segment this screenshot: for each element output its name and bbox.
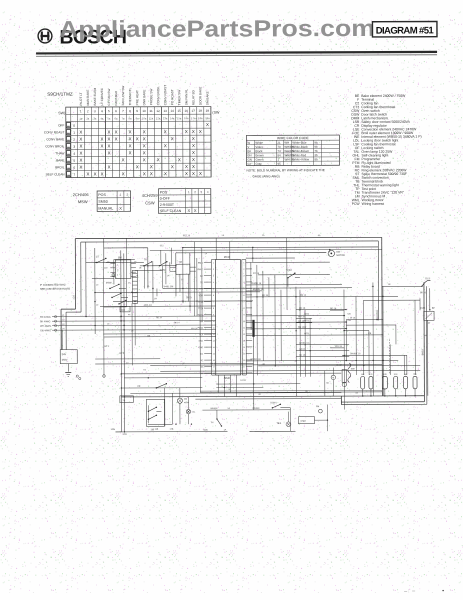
svg-text:X: X bbox=[107, 129, 110, 134]
svg-text:12: 12 bbox=[213, 334, 215, 336]
SW labels bbox=[58, 111, 220, 116]
svg-text:GAGE (AWG AWG): GAGE (AWG AWG) bbox=[253, 174, 280, 178]
svg-text:X: X bbox=[143, 129, 146, 134]
heating element row bbox=[361, 374, 418, 397]
svg-text:GN 1B: GN 1B bbox=[299, 349, 306, 351]
svg-text:17B: 17B bbox=[169, 429, 173, 431]
svg-text:SW): SW) bbox=[58, 111, 65, 115]
switch F004 bbox=[287, 270, 300, 287]
svg-text:4: 4 bbox=[243, 282, 244, 284]
svg-text:BK 14: BK 14 bbox=[174, 322, 180, 324]
svg-text:MOV: MOV bbox=[62, 359, 68, 362]
svg-text:2: 2 bbox=[213, 269, 214, 271]
schematic outer frame top and sides bbox=[61, 237, 383, 397]
top bus wires bbox=[104, 246, 382, 253]
svg-text:9: 9 bbox=[213, 314, 214, 316]
thermostat switch ST bbox=[86, 255, 116, 276]
svg-text:10: 10 bbox=[142, 109, 146, 113]
svg-text:X: X bbox=[108, 150, 111, 155]
svg-text:6: 6 bbox=[243, 295, 244, 297]
wire gauge labels right bbox=[250, 272, 427, 366]
svg-text:X: X bbox=[185, 171, 188, 176]
right vertical drop wires bbox=[251, 249, 421, 410]
rotated column header labels bbox=[79, 85, 210, 106]
svg-text:4: 4 bbox=[101, 109, 103, 113]
door interlock box bbox=[424, 311, 435, 396]
svg-text:0: 0 bbox=[73, 124, 75, 128]
svg-text:WH 4AWG: WH 4AWG bbox=[40, 325, 51, 328]
aux left wires bbox=[95, 336, 341, 379]
svg-text:X: X bbox=[192, 136, 195, 141]
svg-text:WH 18: WH 18 bbox=[335, 346, 342, 348]
svg-text:OFF: OFF bbox=[58, 123, 64, 127]
svg-text:X: X bbox=[101, 143, 104, 148]
svg-text:X: X bbox=[108, 164, 111, 169]
svg-text:X: X bbox=[101, 171, 104, 176]
svg-text:POS: POS bbox=[160, 190, 168, 194]
svg-text:X: X bbox=[171, 164, 174, 169]
svg-text:2: 2 bbox=[87, 109, 89, 113]
svg-text:X: X bbox=[79, 158, 82, 163]
svg-text:SUE: SUE bbox=[383, 374, 388, 376]
svg-text:7: 7 bbox=[243, 301, 244, 303]
svg-text:MANUAL: MANUAL bbox=[98, 207, 113, 211]
svg-text:13a: 13a bbox=[163, 116, 168, 120]
matrix row labels and icons bbox=[44, 123, 71, 177]
bottom terminal labels bbox=[110, 429, 226, 436]
switch COM bbox=[159, 261, 176, 272]
svg-text:12: 12 bbox=[156, 109, 160, 113]
right horizontal bus wires bbox=[246, 257, 422, 365]
svg-text:GND: GND bbox=[199, 347, 204, 349]
svg-text:X: X bbox=[79, 137, 82, 142]
svg-text:WH 14: WH 14 bbox=[191, 328, 198, 330]
svg-text:5: 5 bbox=[73, 159, 75, 163]
svg-text:CONV BAKE: CONV BAKE bbox=[46, 137, 64, 141]
svg-text:X: X bbox=[199, 171, 202, 176]
svg-text:18: 18 bbox=[243, 373, 245, 375]
door latch switch DLS bbox=[420, 278, 436, 310]
svg-text:15: 15 bbox=[213, 353, 215, 355]
svg-text:9: 9 bbox=[244, 314, 245, 316]
svg-text:16a: 16a bbox=[184, 116, 189, 120]
svg-text:X: X bbox=[157, 157, 160, 162]
svg-text:CSW: CSW bbox=[145, 200, 155, 205]
svg-text:DNR BAKE: DNR BAKE bbox=[142, 89, 146, 105]
svg-text:6: 6 bbox=[73, 166, 75, 170]
watermark AppliancePartsPros.com bbox=[59, 15, 375, 42]
svg-text:White-Yellow: White-Yellow bbox=[292, 157, 310, 161]
wire color note bbox=[246, 168, 324, 178]
svg-text:X: X bbox=[171, 136, 174, 141]
svg-text:RD 18: RD 18 bbox=[330, 308, 337, 310]
svg-text:X: X bbox=[192, 157, 195, 162]
svg-text:13: 13 bbox=[243, 340, 245, 342]
svg-text:12: 12 bbox=[243, 334, 245, 336]
svg-text:X: X bbox=[108, 136, 111, 141]
svg-text:14a: 14a bbox=[170, 116, 175, 120]
svg-text:DIAGRAM #51: DIAGRAM #51 bbox=[376, 25, 435, 36]
svg-text:2: 2 bbox=[243, 269, 244, 271]
svg-text:X: X bbox=[143, 136, 146, 141]
svg-text:CLK: CLK bbox=[199, 334, 204, 336]
matrix X marks bbox=[79, 122, 209, 176]
frame label 1C4 bbox=[72, 295, 75, 300]
svg-text:13: 13 bbox=[163, 109, 167, 113]
scattered wire labels left bbox=[96, 245, 359, 397]
svg-text:X: X bbox=[79, 151, 82, 156]
svg-text:F004: F004 bbox=[287, 270, 293, 272]
svg-text:15a: 15a bbox=[177, 116, 182, 120]
svg-text:X: X bbox=[178, 157, 181, 162]
svg-text:7: 7 bbox=[213, 301, 214, 303]
svg-text:X: X bbox=[194, 208, 197, 213]
svg-text:8: 8 bbox=[213, 308, 214, 310]
IC U1 pin stubs bbox=[197, 262, 252, 375]
svg-text:17: 17 bbox=[192, 109, 196, 113]
svg-text:TIMER SW: TIMER SW bbox=[177, 90, 181, 106]
svg-text:8b: 8b bbox=[314, 157, 318, 161]
svg-text:18a: 18a bbox=[198, 116, 203, 120]
svg-text:10: 10 bbox=[243, 321, 245, 323]
CSW table label bbox=[142, 193, 159, 206]
component legend list bbox=[351, 94, 422, 206]
cooling fan motor C2 bbox=[177, 388, 189, 424]
svg-text:RD 14: RD 14 bbox=[156, 317, 163, 319]
svg-text:CONV ROAST: CONV ROAST bbox=[163, 85, 167, 106]
svg-text:15: 15 bbox=[177, 109, 181, 113]
svg-text:GY 16: GY 16 bbox=[253, 273, 260, 275]
svg-text:OSC: OSC bbox=[199, 341, 204, 343]
svg-text:TM: TM bbox=[178, 261, 181, 264]
svg-text:CF FAN SW: CF FAN SW bbox=[107, 89, 111, 106]
svg-text:V=BL 1M: V=BL 1M bbox=[163, 285, 173, 288]
svg-text:SM50: SM50 bbox=[98, 200, 107, 204]
svg-text:X: X bbox=[79, 130, 82, 135]
svg-text:X: X bbox=[150, 164, 153, 169]
svg-text:7: 7 bbox=[122, 109, 124, 113]
svg-text:BK/18: BK/18 bbox=[422, 349, 424, 356]
svg-text:DLS: DLS bbox=[425, 278, 430, 280]
wire color code table bbox=[246, 135, 339, 166]
svg-text:X: X bbox=[188, 208, 191, 213]
convection motor cluster bbox=[325, 363, 356, 396]
svg-text:WH/BK 16: WH/BK 16 bbox=[350, 353, 361, 355]
svg-text:5: 5 bbox=[243, 288, 244, 290]
svg-text:11a: 11a bbox=[149, 116, 154, 120]
svg-text:BN 14: BN 14 bbox=[300, 295, 307, 297]
svg-text:3: 3 bbox=[94, 109, 96, 113]
svg-text:CONV ROAST: CONV ROAST bbox=[44, 130, 65, 134]
svg-text:BK 4AWG: BK 4AWG bbox=[40, 320, 51, 323]
mains input wires L1 L2 N GND bbox=[40, 314, 216, 332]
svg-text:1: 1 bbox=[73, 131, 75, 135]
svg-text:X: X bbox=[164, 171, 167, 176]
svg-text:X: X bbox=[122, 171, 125, 176]
svg-text:X: X bbox=[192, 150, 195, 155]
svg-text:W 16: W 16 bbox=[350, 318, 356, 320]
svg-text:CSM: CSM bbox=[300, 421, 305, 423]
svg-text:BAKE: BAKE bbox=[56, 158, 64, 162]
svg-text:Wiring harness: Wiring harness bbox=[362, 202, 385, 206]
svg-text:SE2 14: SE2 14 bbox=[183, 235, 191, 237]
svg-text:BK 1B: BK 1B bbox=[299, 355, 306, 357]
svg-text:M: M bbox=[332, 377, 334, 379]
svg-text:11B: 11B bbox=[154, 429, 158, 431]
svg-text:2PA 1A: 2PA 1A bbox=[144, 304, 152, 307]
svg-text:X: X bbox=[143, 157, 146, 162]
svg-text:FAN HIGH: FAN HIGH bbox=[114, 91, 118, 106]
switch matrix grid bbox=[66, 107, 211, 178]
svg-text:24V: 24V bbox=[62, 353, 67, 356]
svg-text:FAN LOW SW: FAN LOW SW bbox=[121, 86, 125, 106]
svg-text:LT CONVEC: LT CONVEC bbox=[100, 87, 104, 105]
svg-text:BROIL: BROIL bbox=[55, 165, 65, 169]
svg-text:W/B: W/B bbox=[203, 430, 208, 432]
MSW position table bbox=[97, 191, 131, 212]
svg-text:IF CONNECTED 50HZ-: IF CONNECTED 50HZ- bbox=[40, 284, 67, 287]
svg-text:1C4: 1C4 bbox=[72, 295, 75, 300]
svg-text:DOOR BAKE: DOOR BAKE bbox=[198, 87, 202, 105]
svg-text:X: X bbox=[192, 171, 195, 176]
svg-text:SM FAN RL: SM FAN RL bbox=[184, 89, 188, 106]
svg-text:PRE HEAT: PRE HEAT bbox=[135, 90, 139, 105]
IC bottom drop wires bbox=[218, 375, 247, 397]
relay module SM bbox=[110, 256, 136, 278]
cooling fan switch CF bbox=[121, 382, 382, 393]
svg-text:— ·: — · bbox=[404, 589, 409, 593]
page footer marks bbox=[404, 589, 444, 593]
svg-text:1: 1 bbox=[80, 109, 82, 113]
svg-text:X: X bbox=[129, 136, 132, 141]
svg-text:8: 8 bbox=[129, 109, 131, 113]
svg-text:VDD: VDD bbox=[199, 295, 204, 297]
svg-text:X: X bbox=[192, 164, 195, 169]
svg-text:NOTE: BOLD NUMERAL BY WIRING A: NOTE: BOLD NUMERAL BY WIRING AT INDICATE… bbox=[246, 168, 324, 172]
svg-text:2: 2 bbox=[73, 138, 75, 142]
svg-text:10a: 10a bbox=[142, 116, 147, 120]
svg-text:14: 14 bbox=[213, 347, 215, 349]
svg-text:RC 2: RC 2 bbox=[104, 346, 110, 348]
svg-text:19: 19 bbox=[206, 109, 210, 113]
svg-text:X: X bbox=[80, 165, 83, 170]
svg-text:5: 5 bbox=[213, 288, 214, 290]
latch control circuit DSW1 bbox=[270, 402, 327, 431]
svg-text:X: X bbox=[122, 157, 125, 162]
svg-text:17a: 17a bbox=[191, 116, 196, 120]
svg-text:X: X bbox=[136, 164, 139, 169]
svg-text:5: 5 bbox=[108, 109, 110, 113]
svg-text:46/54: 46/54 bbox=[420, 308, 426, 310]
svg-text:WH/BK: WH/BK bbox=[210, 408, 218, 410]
svg-text:7: 7 bbox=[73, 173, 75, 177]
svg-text:X: X bbox=[192, 129, 195, 134]
svg-text:X: X bbox=[115, 129, 118, 134]
svg-text:TP28: TP28 bbox=[198, 308, 204, 310]
svg-text:6: 6 bbox=[115, 109, 117, 113]
svg-text:11: 11 bbox=[243, 327, 245, 329]
svg-text:(SW: (SW bbox=[212, 111, 220, 115]
svg-text:15: 15 bbox=[243, 353, 245, 355]
connector bar thick bbox=[252, 320, 254, 337]
svg-text:10: 10 bbox=[213, 321, 215, 323]
svg-text:RM 1: RM 1 bbox=[198, 263, 204, 265]
labels above frame bbox=[183, 234, 321, 238]
svg-text:WH 18: WH 18 bbox=[298, 316, 305, 318]
svg-text:PILOT LT: PILOT LT bbox=[79, 92, 83, 105]
svg-text:X: X bbox=[108, 143, 111, 148]
svg-text:8: 8 bbox=[243, 308, 244, 310]
svg-text:X: X bbox=[164, 143, 167, 148]
svg-text:12a: 12a bbox=[156, 116, 161, 120]
svg-text:X: X bbox=[136, 136, 139, 141]
junction dots bbox=[85, 257, 384, 433]
Bosch logo text bbox=[59, 26, 127, 48]
svg-text:X: X bbox=[143, 150, 146, 155]
svg-text:DSW1: DSW1 bbox=[270, 402, 277, 404]
svg-text:X: X bbox=[87, 172, 90, 177]
svg-text:AppliancePartsPros.com: AppliancePartsPros.com bbox=[59, 15, 375, 42]
svg-text:18: 18 bbox=[199, 109, 203, 113]
svg-text:WH/BA 1B: WH/BA 1B bbox=[250, 358, 261, 361]
svg-text:BN 16: BN 16 bbox=[210, 363, 216, 365]
svg-text:CONV BROIL: CONV BROIL bbox=[45, 144, 64, 148]
svg-text:16: 16 bbox=[213, 360, 215, 362]
svg-text:X: X bbox=[94, 172, 97, 177]
svg-text:TCO1: TCO1 bbox=[198, 315, 204, 317]
svg-text:SELF CLEAN: SELF CLEAN bbox=[160, 209, 182, 213]
svg-text:X: X bbox=[79, 144, 82, 149]
svg-text:GY 16: GY 16 bbox=[298, 321, 305, 323]
svg-text:X: X bbox=[143, 171, 146, 176]
mid bottom labels bbox=[210, 407, 260, 410]
svg-text:1: 1 bbox=[243, 262, 244, 264]
svg-text:9: 9 bbox=[136, 109, 138, 113]
svg-text:S4E: S4E bbox=[351, 369, 356, 371]
svg-text:MSW: MSW bbox=[78, 199, 88, 204]
svg-text:RM: RM bbox=[122, 310, 126, 312]
svg-text:11: 11 bbox=[213, 327, 215, 329]
svg-text:X: X bbox=[119, 206, 122, 211]
left frame stub terminals bbox=[76, 375, 81, 380]
svg-text:2043: 2043 bbox=[224, 255, 231, 259]
svg-text:RELAY BD: RELAY BD bbox=[191, 89, 195, 105]
svg-text:14: 14 bbox=[170, 109, 174, 113]
svg-text:X: X bbox=[101, 136, 104, 141]
svg-text:MSW: MSW bbox=[106, 282, 112, 284]
left riser wires down to bottom bbox=[86, 242, 125, 432]
svg-text:13: 13 bbox=[213, 340, 215, 342]
svg-text:X: X bbox=[164, 129, 167, 134]
svg-text:PM62: PM62 bbox=[198, 328, 204, 330]
svg-text:X: X bbox=[206, 122, 209, 127]
svg-text:GN 4AWG: GN 4AWG bbox=[40, 329, 51, 332]
svg-text:16: 16 bbox=[243, 360, 245, 362]
svg-text:AC: AC bbox=[200, 275, 203, 278]
svg-text:GY: GY bbox=[247, 162, 251, 166]
CSW position table bbox=[159, 189, 211, 214]
horizontal rule under header bbox=[36, 51, 437, 57]
svg-text:TB/A: TB/A bbox=[276, 422, 281, 425]
transformer TM bbox=[170, 261, 196, 275]
switch RM bbox=[118, 300, 130, 312]
svg-text:SM BAKE: SM BAKE bbox=[205, 91, 209, 105]
switch pair MSW lower bbox=[106, 282, 128, 298]
DIAGRAM #51 label box bbox=[372, 22, 437, 37]
schematic bottom bus lines bbox=[115, 392, 424, 432]
svg-text:SIN: SIN bbox=[200, 321, 204, 323]
svg-text:1M: 1M bbox=[154, 298, 157, 300]
MSW table label bbox=[73, 192, 90, 204]
svg-text:41-47: 41-47 bbox=[336, 365, 342, 367]
svg-text:19a: 19a bbox=[205, 116, 210, 120]
svg-text:3: 3 bbox=[213, 275, 214, 277]
connector bar J2 hatched bbox=[132, 270, 137, 303]
svg-text:SM: SM bbox=[118, 256, 122, 259]
svg-text:X: X bbox=[150, 171, 153, 176]
svg-text:Gray: Gray bbox=[255, 162, 262, 166]
fan selector switches bbox=[146, 388, 172, 431]
svg-text:RM C: RM C bbox=[198, 269, 204, 271]
svg-text:2B 10: 2B 10 bbox=[186, 297, 192, 299]
svg-text:X: X bbox=[129, 150, 132, 155]
riser wires from top bus bbox=[104, 238, 287, 297]
svg-text:3: 3 bbox=[73, 145, 75, 149]
svg-text:24 GY: 24 GY bbox=[240, 380, 247, 382]
svg-text:1GN: 1GN bbox=[110, 429, 115, 431]
svg-text:2-9-500T: 2-9-500T bbox=[160, 203, 175, 207]
svg-text:WH/BK: WH/BK bbox=[252, 408, 260, 410]
svg-text:0-OFF: 0-OFF bbox=[160, 197, 170, 201]
svg-text:PO ROAST: PO ROAST bbox=[170, 89, 174, 105]
svg-text:RD 4AWG: RD 4AWG bbox=[40, 316, 51, 319]
svg-text:DM: DM bbox=[336, 252, 340, 254]
svg-text:S9CH/1TMZ: S9CH/1TMZ bbox=[47, 92, 73, 97]
svg-text:18: 18 bbox=[213, 373, 215, 375]
svg-text:X: X bbox=[199, 129, 202, 134]
svg-text:CONV BROIL: CONV BROIL bbox=[156, 86, 160, 105]
thermal switch TH bbox=[210, 410, 222, 427]
svg-text:WH/BU 16: WH/BU 16 bbox=[253, 289, 264, 291]
svg-text:11: 11 bbox=[149, 109, 153, 113]
svg-text:BN 14: BN 14 bbox=[298, 327, 305, 329]
svg-text:4: 4 bbox=[213, 282, 214, 284]
svg-text:—: — bbox=[412, 589, 415, 593]
svg-text:WIRE COLOR CODE: WIRE COLOR CODE bbox=[277, 136, 310, 140]
svg-text:BK 16: BK 16 bbox=[420, 292, 427, 294]
svg-text:THERM CTL: THERM CTL bbox=[128, 87, 132, 105]
svg-text:X: X bbox=[185, 129, 188, 134]
svg-text:16: 16 bbox=[185, 109, 189, 113]
svg-text:SELF CLEAN: SELF CLEAN bbox=[46, 172, 65, 176]
left area bus wires bbox=[92, 237, 421, 393]
oven lamp OL bbox=[186, 397, 196, 425]
svg-text:MAN BAKE: MAN BAKE bbox=[86, 90, 90, 106]
svg-text:2CH/406: 2CH/406 bbox=[73, 192, 90, 197]
svg-text:PCW: PCW bbox=[352, 202, 361, 206]
svg-text:POS: POS bbox=[98, 193, 106, 197]
svg-text:BAKE ELEM: BAKE ELEM bbox=[93, 88, 97, 106]
svg-text:17: 17 bbox=[243, 366, 245, 368]
svg-text:14: 14 bbox=[243, 347, 245, 349]
svg-text:PM: PM bbox=[316, 406, 319, 408]
svg-text:PROBE SW: PROBE SW bbox=[149, 89, 153, 106]
sub frame lines below IC bbox=[216, 383, 300, 388]
svg-text:4CH/259: 4CH/259 bbox=[142, 193, 159, 198]
svg-text:1: 1 bbox=[213, 262, 214, 264]
svg-text:S1E: S1E bbox=[394, 374, 398, 376]
svg-text:X: X bbox=[129, 129, 132, 134]
